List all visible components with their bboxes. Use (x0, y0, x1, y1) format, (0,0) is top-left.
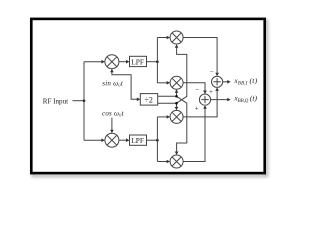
node div2 upper (175, 95, 178, 98)
wire cos LO (110, 118, 114, 134)
wire MXQ to LPF2 (119, 138, 130, 142)
LPF1 (130, 56, 147, 66)
svg-text:−: − (195, 86, 199, 94)
summer S2 (199, 94, 210, 105)
wire M3 to S1 (183, 87, 219, 117)
node LPF2 split (156, 139, 159, 142)
mixer M4 (170, 155, 183, 168)
svg-text:+: + (209, 88, 213, 96)
mixer M2 (170, 76, 183, 89)
wire to mixer MXQ (84, 138, 105, 142)
wire RF split vertical (83, 62, 85, 141)
svg-text:÷2: ÷2 (145, 96, 153, 105)
svg-text:LPF: LPF (131, 57, 144, 66)
LPF2 (130, 135, 147, 145)
node RF split (83, 99, 86, 102)
wire M1 to S1 (183, 38, 219, 77)
mixer MXI (RF x sin) (105, 55, 119, 69)
node LPF1 split (156, 60, 159, 63)
wire MXI to LPF1 (119, 60, 130, 64)
svg-text:LPF: LPF (131, 136, 144, 145)
svg-text:cos ω0t: cos ω0t (102, 109, 125, 117)
wire sin LO (110, 69, 140, 101)
wire S1 output (223, 80, 231, 84)
svg-text:RF Input: RF Input (43, 97, 68, 105)
svg-text:−: − (210, 68, 214, 76)
summer S1 (212, 76, 223, 87)
wire LPF2 output (147, 139, 158, 141)
wire to mixer M4 (157, 160, 170, 164)
mixer M3 (170, 110, 183, 123)
divider box /2 (140, 94, 157, 106)
wire div2 upper output (158, 89, 187, 155)
wire LPF2 split vertical (156, 117, 158, 162)
wire M2 to S2 (183, 83, 207, 94)
wire to mixer M2 (157, 81, 170, 85)
node div2 lower (175, 102, 178, 105)
wire to mixer M3 (157, 115, 170, 119)
mixer M1 (170, 31, 183, 44)
mixer MXQ (RF x cos) (105, 133, 119, 147)
wire S2 output (211, 98, 231, 102)
wire M4 to S2 (183, 105, 207, 161)
wire div2 lower output (158, 44, 187, 110)
wire LPF1 split vertical (156, 38, 158, 83)
wire RF input (73, 100, 85, 102)
frame shadow (33, 21, 267, 176)
wire to mixer M1 (157, 36, 170, 40)
svg-text:+: + (195, 105, 199, 113)
svg-text:sin ω0t: sin ω0t (102, 80, 124, 88)
wire to mixer MXI (84, 60, 105, 64)
wire LPF1 output (147, 61, 158, 63)
